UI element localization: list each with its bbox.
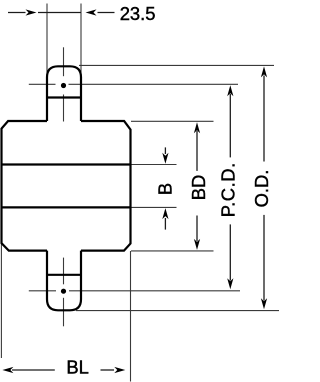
svg-text:BD: BD bbox=[188, 175, 209, 201]
svg-text:O.D.: O.D. bbox=[251, 170, 272, 208]
svg-text:P.C.D.: P.C.D. bbox=[218, 162, 239, 217]
svg-text:BL: BL bbox=[66, 356, 89, 377]
svg-text:23.5: 23.5 bbox=[120, 3, 156, 24]
svg-text:B: B bbox=[155, 183, 176, 195]
